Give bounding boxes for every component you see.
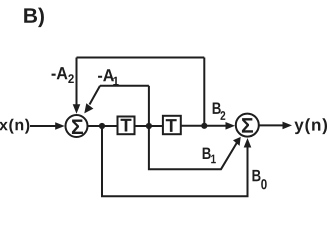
coefficient label B1 (203, 148, 216, 164)
node N2 junction dot after T2 (201, 123, 207, 129)
wire -A1 feedback diagonal into S1 (90, 86, 101, 105)
coefficient label B0 (252, 170, 266, 189)
delay block T1 (118, 117, 135, 135)
node N1 junction dot between T1 and T2 (146, 123, 152, 129)
arrowhead B0 into S2 bottom (244, 138, 252, 148)
wire -A2 feedback top run (77, 57, 205, 59)
wire -A1 feedback top run (100, 85, 149, 87)
heading B) (24, 8, 44, 28)
coefficient label -A2 (52, 67, 74, 83)
arrowhead output into y(n) (283, 122, 293, 130)
arrowhead B2 into S2 left (226, 122, 236, 130)
input label x(n) (0, 119, 29, 134)
delay block T2 label (166, 119, 177, 132)
delay block T2 (163, 116, 181, 134)
coefficient label B2 (213, 103, 226, 120)
summer S1 sigma glyph (72, 120, 83, 134)
summer S2 sigma glyph (242, 118, 253, 132)
arrowhead -A2 into S1 top (73, 104, 81, 114)
wire B1 path from node N1 to S2 (149, 126, 237, 169)
delay block T1 label (121, 119, 132, 132)
wire input x(n) to summer S1 (30, 125, 57, 127)
node N0 junction dot after S1 (99, 123, 105, 129)
arrowhead input into S1 (55, 122, 64, 130)
output label y(n) (294, 118, 327, 134)
wire S2 to output y(n) (259, 124, 286, 126)
arrowhead B1 into S2 lower-left (233, 137, 241, 146)
wire T1 to delay T2 (135, 125, 163, 127)
summer S1 circle (66, 115, 88, 137)
wire B0 path from node N0 to S2 (102, 126, 248, 196)
wire T2 to summer S2 (181, 125, 228, 127)
arrowhead -A1 into S1 upper-right (84, 103, 93, 113)
summer S2 circle (236, 114, 259, 137)
wire -A2 feedback right riser from node N2 (203, 58, 205, 126)
wire S1 to delay T1 (88, 125, 118, 127)
wire -A2 feedback left drop into S1 (76, 58, 78, 106)
coefficient label -A1 (98, 69, 119, 85)
wire -A1 feedback riser from node N1 (148, 86, 150, 126)
